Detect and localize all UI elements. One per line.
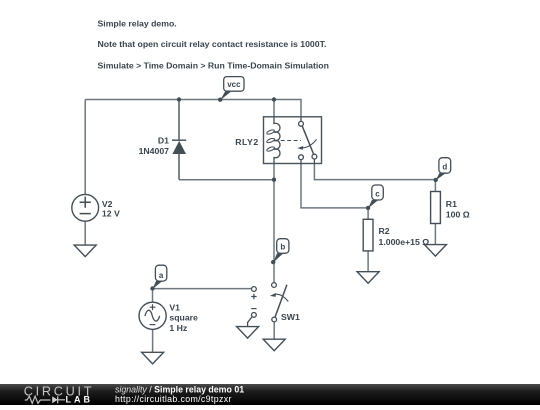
node flag b	[271, 239, 289, 265]
svg-text:c: c	[375, 190, 380, 199]
wire vcc top rail	[85, 100, 301, 122]
ground below R1	[424, 245, 446, 257]
node flag c	[366, 185, 383, 210]
wire diode bottom horizontal	[179, 179, 274, 181]
ground at SW1 minus	[237, 327, 259, 339]
wire node a to SW1 plus	[153, 288, 252, 290]
wire R1 bottom lead	[434, 224, 436, 245]
switch SW1	[248, 283, 289, 327]
svg-text:square: square	[169, 313, 198, 323]
svg-text:Simulate > Time Domain > Run T: Simulate > Time Domain > Run Time-Domain…	[98, 60, 329, 70]
svg-text:1N4007: 1N4007	[139, 146, 170, 156]
svg-text:Simple relay demo.: Simple relay demo.	[98, 19, 177, 29]
svg-text:b: b	[280, 243, 285, 252]
voltage source V2	[72, 194, 99, 221]
wire left drop to V2	[84, 100, 86, 195]
wire R1 top lead	[434, 180, 436, 192]
svg-text:V1: V1	[169, 302, 180, 312]
wire coil branch vertical	[273, 100, 275, 283]
svg-text:R1: R1	[446, 199, 457, 209]
svg-text:RLY2: RLY2	[235, 137, 258, 147]
junction dot diode top	[177, 97, 181, 101]
voltage source V1	[139, 302, 166, 329]
svg-text:a: a	[159, 271, 164, 280]
ground below V2	[74, 245, 96, 257]
relay RLY2	[264, 117, 322, 164]
svg-text:Note that open circuit relay c: Note that open circuit relay contact res…	[98, 39, 327, 49]
wire V2 bottom lead	[84, 221, 86, 245]
node flag d	[434, 158, 451, 182]
logo diode	[52, 396, 58, 403]
svg-text:1.000e+15 Ω: 1.000e+15 Ω	[379, 237, 430, 247]
node flag vcc	[218, 77, 244, 102]
logo resistor zigzag	[25, 396, 51, 403]
svg-text:12 V: 12 V	[102, 208, 120, 218]
svg-text:LAB: LAB	[66, 394, 94, 404]
svg-text:vcc: vcc	[227, 80, 241, 89]
svg-text:http://circuitlab.com/c9tpzxr: http://circuitlab.com/c9tpzxr	[115, 394, 232, 404]
ground below V1	[142, 352, 164, 364]
node flag a	[150, 265, 166, 290]
svg-text:SW1: SW1	[281, 312, 300, 322]
svg-text:D1: D1	[158, 136, 169, 146]
wire relay bottom-right to node d	[314, 164, 435, 180]
svg-text:1 Hz: 1 Hz	[169, 323, 188, 333]
svg-text:R2: R2	[379, 226, 390, 236]
resistor R2	[363, 219, 373, 251]
svg-text:d: d	[442, 162, 447, 171]
wire SW1 bottom lead	[273, 322, 275, 339]
ground below R2	[357, 272, 379, 284]
wire V1 top lead	[152, 289, 154, 303]
junction dot coil top	[272, 97, 276, 101]
wire V1 bottom lead	[152, 330, 154, 353]
junction dot diode bottom	[272, 178, 276, 182]
wire R2 top lead	[367, 208, 369, 219]
wire relay bottom-left to node c	[301, 164, 368, 208]
resistor R1	[431, 192, 441, 224]
wire R2 bottom lead	[367, 251, 369, 272]
diode D1	[172, 100, 186, 180]
svg-text:100 Ω: 100 Ω	[446, 210, 470, 220]
ground below SW1	[263, 339, 285, 351]
